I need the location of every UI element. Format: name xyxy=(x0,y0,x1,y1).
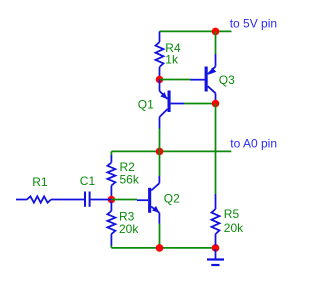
svg-text:Q1: Q1 xyxy=(138,98,154,112)
svg-text:to A0 pin: to A0 pin xyxy=(230,136,277,150)
ground xyxy=(207,249,224,265)
resistor R3 xyxy=(107,202,115,248)
capacitor C1 xyxy=(85,192,111,207)
transistor Q3 (PNP) xyxy=(190,54,216,101)
svg-text:Q2: Q2 xyxy=(164,192,180,206)
node: R4 / Q1 emitter / Q3 base xyxy=(156,76,164,84)
node: Q3 collector / Q1 base xyxy=(212,100,220,108)
svg-text:R5: R5 xyxy=(224,207,240,221)
wire: +5V top rail xyxy=(160,30,232,32)
resistor R5 xyxy=(212,194,220,246)
svg-text:C1: C1 xyxy=(80,174,96,188)
resistor R1 xyxy=(27,196,51,202)
resistor R4 xyxy=(156,31,164,77)
svg-text:R1: R1 xyxy=(32,175,48,189)
wire: Q2 emitter to ground rail xyxy=(159,224,161,248)
node: A0 junction xyxy=(156,148,164,156)
node: bottom rail / R5 / ground xyxy=(212,244,220,252)
wire: A0 output rail xyxy=(111,150,231,152)
node: input / R2 / R3 / Q2 base xyxy=(108,196,116,204)
svg-text:Q3: Q3 xyxy=(219,73,235,87)
wire: Q3 collector down to R5 (crosses A0 rail) xyxy=(215,104,217,195)
wire: R4 to Q3 base xyxy=(160,79,191,81)
svg-text:20k: 20k xyxy=(119,222,139,236)
wire: A0 rail down to Q2 collector xyxy=(159,151,161,176)
svg-text:1k: 1k xyxy=(165,53,179,67)
svg-text:20k: 20k xyxy=(224,221,244,235)
wire: Q1 collector to A0 rail xyxy=(159,129,161,152)
node: 5V rail junction xyxy=(212,28,220,36)
wire: node to Q2 base xyxy=(111,199,137,201)
transistor Q2 (NPN) xyxy=(137,176,159,224)
node: bottom rail / Q2 emitter xyxy=(156,244,164,252)
svg-text:to 5V pin: to 5V pin xyxy=(230,17,277,31)
transistor Q1 (PNP) xyxy=(160,80,185,129)
resistor R2 xyxy=(107,151,115,197)
wire: 5V to Q3 emitter xyxy=(215,31,217,54)
svg-text:56k: 56k xyxy=(120,172,140,186)
wire: R1 to C1 xyxy=(51,199,84,201)
wire: bottom ground rail xyxy=(111,247,215,249)
wire: input stub xyxy=(16,199,27,201)
wire: Q1 base to Q3 collector node xyxy=(184,103,216,105)
